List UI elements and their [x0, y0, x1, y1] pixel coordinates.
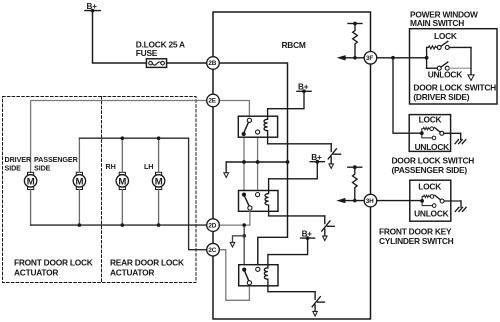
junction top bus RH	[121, 136, 125, 140]
svg-text:M: M	[118, 177, 126, 188]
wire M2 leads	[78, 138, 80, 172]
wire K2 NO lead	[249, 210, 251, 225]
wire B+ to K3 coil	[268, 238, 308, 265]
svg-text:FRONT DOOR KEY: FRONT DOOR KEY	[379, 226, 452, 236]
passenger door lock switch box	[409, 115, 450, 152]
relay K3	[239, 265, 278, 286]
svg-text:M: M	[76, 177, 84, 188]
connector 2B	[207, 57, 220, 70]
svg-text:2B: 2B	[208, 60, 216, 67]
relay K1	[238, 116, 277, 137]
wire bottom bus to 2D	[31, 224, 207, 226]
relay K2	[239, 191, 279, 212]
driver transistor T1	[328, 144, 340, 169]
svg-text:(DRIVER SIDE): (DRIVER SIDE)	[413, 92, 469, 102]
label FRONT DOOR LOCK ACTUATOR	[14, 257, 93, 277]
svg-text:FRONT DOOR LOCK: FRONT DOOR LOCK	[14, 257, 93, 267]
front door key cylinder switch box	[410, 180, 451, 221]
svg-text:2C: 2C	[208, 247, 216, 254]
svg-text:REAR DOOR LOCK: REAR DOOR LOCK	[110, 257, 184, 267]
junction top bus LH	[157, 136, 161, 140]
label DRIVER SIDE	[5, 155, 32, 173]
label DOOR LOCK SWITCH (PASSENGER SIDE)	[392, 155, 475, 175]
pull-up resistor at 3H	[348, 165, 362, 200]
pull-up resistor at 3F	[348, 22, 362, 58]
junction bus x 2B rail	[286, 160, 290, 164]
junction 3F branch	[391, 56, 395, 60]
wire fuse to 2B	[167, 62, 207, 64]
svg-text:3H: 3H	[366, 198, 374, 205]
RBCM module box	[213, 12, 371, 319]
svg-text:LOCK: LOCK	[418, 181, 441, 191]
actuator assembly dashed box	[3, 97, 197, 283]
arrow to CPU (3H)	[336, 198, 345, 203]
key cylinder switch	[420, 195, 461, 208]
wire 3H to CPU arrow	[345, 200, 364, 202]
junction bus K1 NC	[256, 160, 260, 164]
svg-text:FUSE: FUSE	[136, 48, 158, 58]
svg-text:3F: 3F	[366, 55, 373, 62]
motor M4 LH	[152, 172, 164, 189]
junction bus K1 pivot	[242, 160, 246, 164]
wire branch to passenger switch	[393, 58, 422, 133]
motor M2 passenger side	[73, 172, 85, 189]
svg-text:LOCK: LOCK	[419, 115, 442, 125]
driver lock switch	[425, 41, 471, 68]
wire relay K1 pivot / K2 pivot column	[243, 134, 245, 193]
svg-text:ACTUATOR: ACTUATOR	[14, 267, 58, 277]
svg-text:2D: 2D	[208, 222, 216, 229]
label FRONT DOOR KEY CYLINDER SWITCH	[379, 226, 454, 246]
motor M3 RH	[116, 172, 128, 189]
ground (passenger switch)	[455, 133, 466, 143]
svg-text:M: M	[27, 177, 35, 188]
wire M3 leads	[121, 138, 123, 172]
svg-text:UNLOCK: UNLOCK	[428, 69, 463, 79]
arrow down (driver switch)	[468, 75, 474, 81]
wire 2C to relay K3 NO	[219, 250, 249, 301]
junction bottom bus passenger	[78, 223, 82, 227]
svg-text:RH: RH	[106, 162, 116, 171]
label DOOR LOCK SWITCH (DRIVER SIDE)	[413, 83, 496, 102]
arrow to CPU (3F)	[337, 55, 346, 60]
wire 3F to CPU arrow	[345, 57, 364, 59]
battery terminal B+ relay2	[310, 153, 324, 164]
svg-text:SIDE: SIDE	[34, 164, 51, 173]
svg-text:SIDE: SIDE	[5, 164, 22, 173]
svg-text:2E: 2E	[208, 98, 216, 105]
junction bottom bus LH	[157, 223, 161, 227]
junction 2D wire K3 pivot	[242, 223, 246, 227]
wire to arrow (driver switch)	[470, 47, 472, 74]
connector 2E	[207, 94, 220, 107]
svg-text:LH: LH	[144, 162, 153, 171]
driver unlock switch	[427, 62, 471, 70]
svg-text:M: M	[155, 177, 163, 188]
driver transistor T2	[322, 216, 334, 241]
passenger switch	[420, 127, 461, 140]
battery terminal B+ relay1	[297, 83, 311, 94]
junction bottom bus RH	[121, 223, 125, 227]
wire M4 leads	[158, 138, 160, 172]
battery terminal B+ main	[85, 2, 100, 13]
wire 3H to key cylinder switch	[377, 200, 422, 202]
driver transistor T3	[312, 292, 324, 316]
junction 3F wire resistor	[353, 56, 357, 60]
wire B+ to fuse	[93, 11, 147, 63]
ground (key cylinder switch)	[455, 201, 466, 211]
wire B+ to K2 coil	[269, 162, 318, 191]
fuse D.LOCK 25 A	[136, 39, 185, 67]
connector 2D	[207, 219, 220, 232]
wire 2D to relay K3 pivot	[243, 225, 245, 267]
wire top bus to 2C	[79, 138, 206, 250]
svg-text:LOCK: LOCK	[434, 31, 457, 41]
svg-text:ACTUATOR: ACTUATOR	[110, 267, 154, 277]
svg-text:UNLOCK: UNLOCK	[414, 208, 449, 218]
connector 3F	[364, 52, 377, 65]
actuator divider dashed	[101, 97, 103, 283]
svg-text:(PASSENGER SIDE): (PASSENGER SIDE)	[392, 165, 468, 175]
label POWER WINDOW MAIN SWITCH	[410, 9, 478, 28]
wire B+ to K1 coil	[268, 91, 304, 116]
label PASSENGER SIDE	[34, 155, 79, 173]
wire K3 coil to driver T3	[268, 286, 315, 292]
connector 3H	[364, 194, 377, 207]
power window main switch box	[410, 29, 498, 104]
svg-text:CYLINDER SWITCH: CYLINDER SWITCH	[379, 236, 454, 246]
wire K2 coil to driver T2	[269, 211, 325, 216]
wire M1 to bottom bus	[30, 190, 32, 226]
junction K3 pivot branch	[242, 234, 246, 238]
motor M1 driver side	[24, 172, 36, 189]
wire 2E to relay K1 arm	[219, 101, 249, 119]
junction 3H wire resistor	[353, 199, 357, 203]
wire relay K1 NC to K2 NC column	[257, 134, 259, 193]
wire 2B rail	[219, 63, 287, 267]
battery terminal B+ relay3	[301, 229, 315, 240]
wire K1 coil to driver T1	[268, 137, 332, 144]
arrow to other circuit (near 2D)	[230, 236, 244, 247]
label REAR DOOR LOCK ACTUATOR	[110, 257, 184, 277]
svg-text:DOOR LOCK SWITCH: DOOR LOCK SWITCH	[392, 155, 475, 165]
svg-text:MAIN SWITCH: MAIN SWITCH	[410, 18, 464, 28]
arrow to other circuit (bus left end)	[224, 162, 229, 178]
svg-text:UNLOCK: UNLOCK	[415, 142, 450, 152]
wire 3F to main switch	[377, 57, 427, 59]
connector 2C	[207, 243, 220, 256]
wire 2D to relay K2 NO	[219, 224, 250, 226]
internal B+ bus wire	[226, 161, 287, 163]
svg-text:RBCM: RBCM	[282, 40, 306, 50]
wire 2E to driver motor	[31, 101, 207, 173]
